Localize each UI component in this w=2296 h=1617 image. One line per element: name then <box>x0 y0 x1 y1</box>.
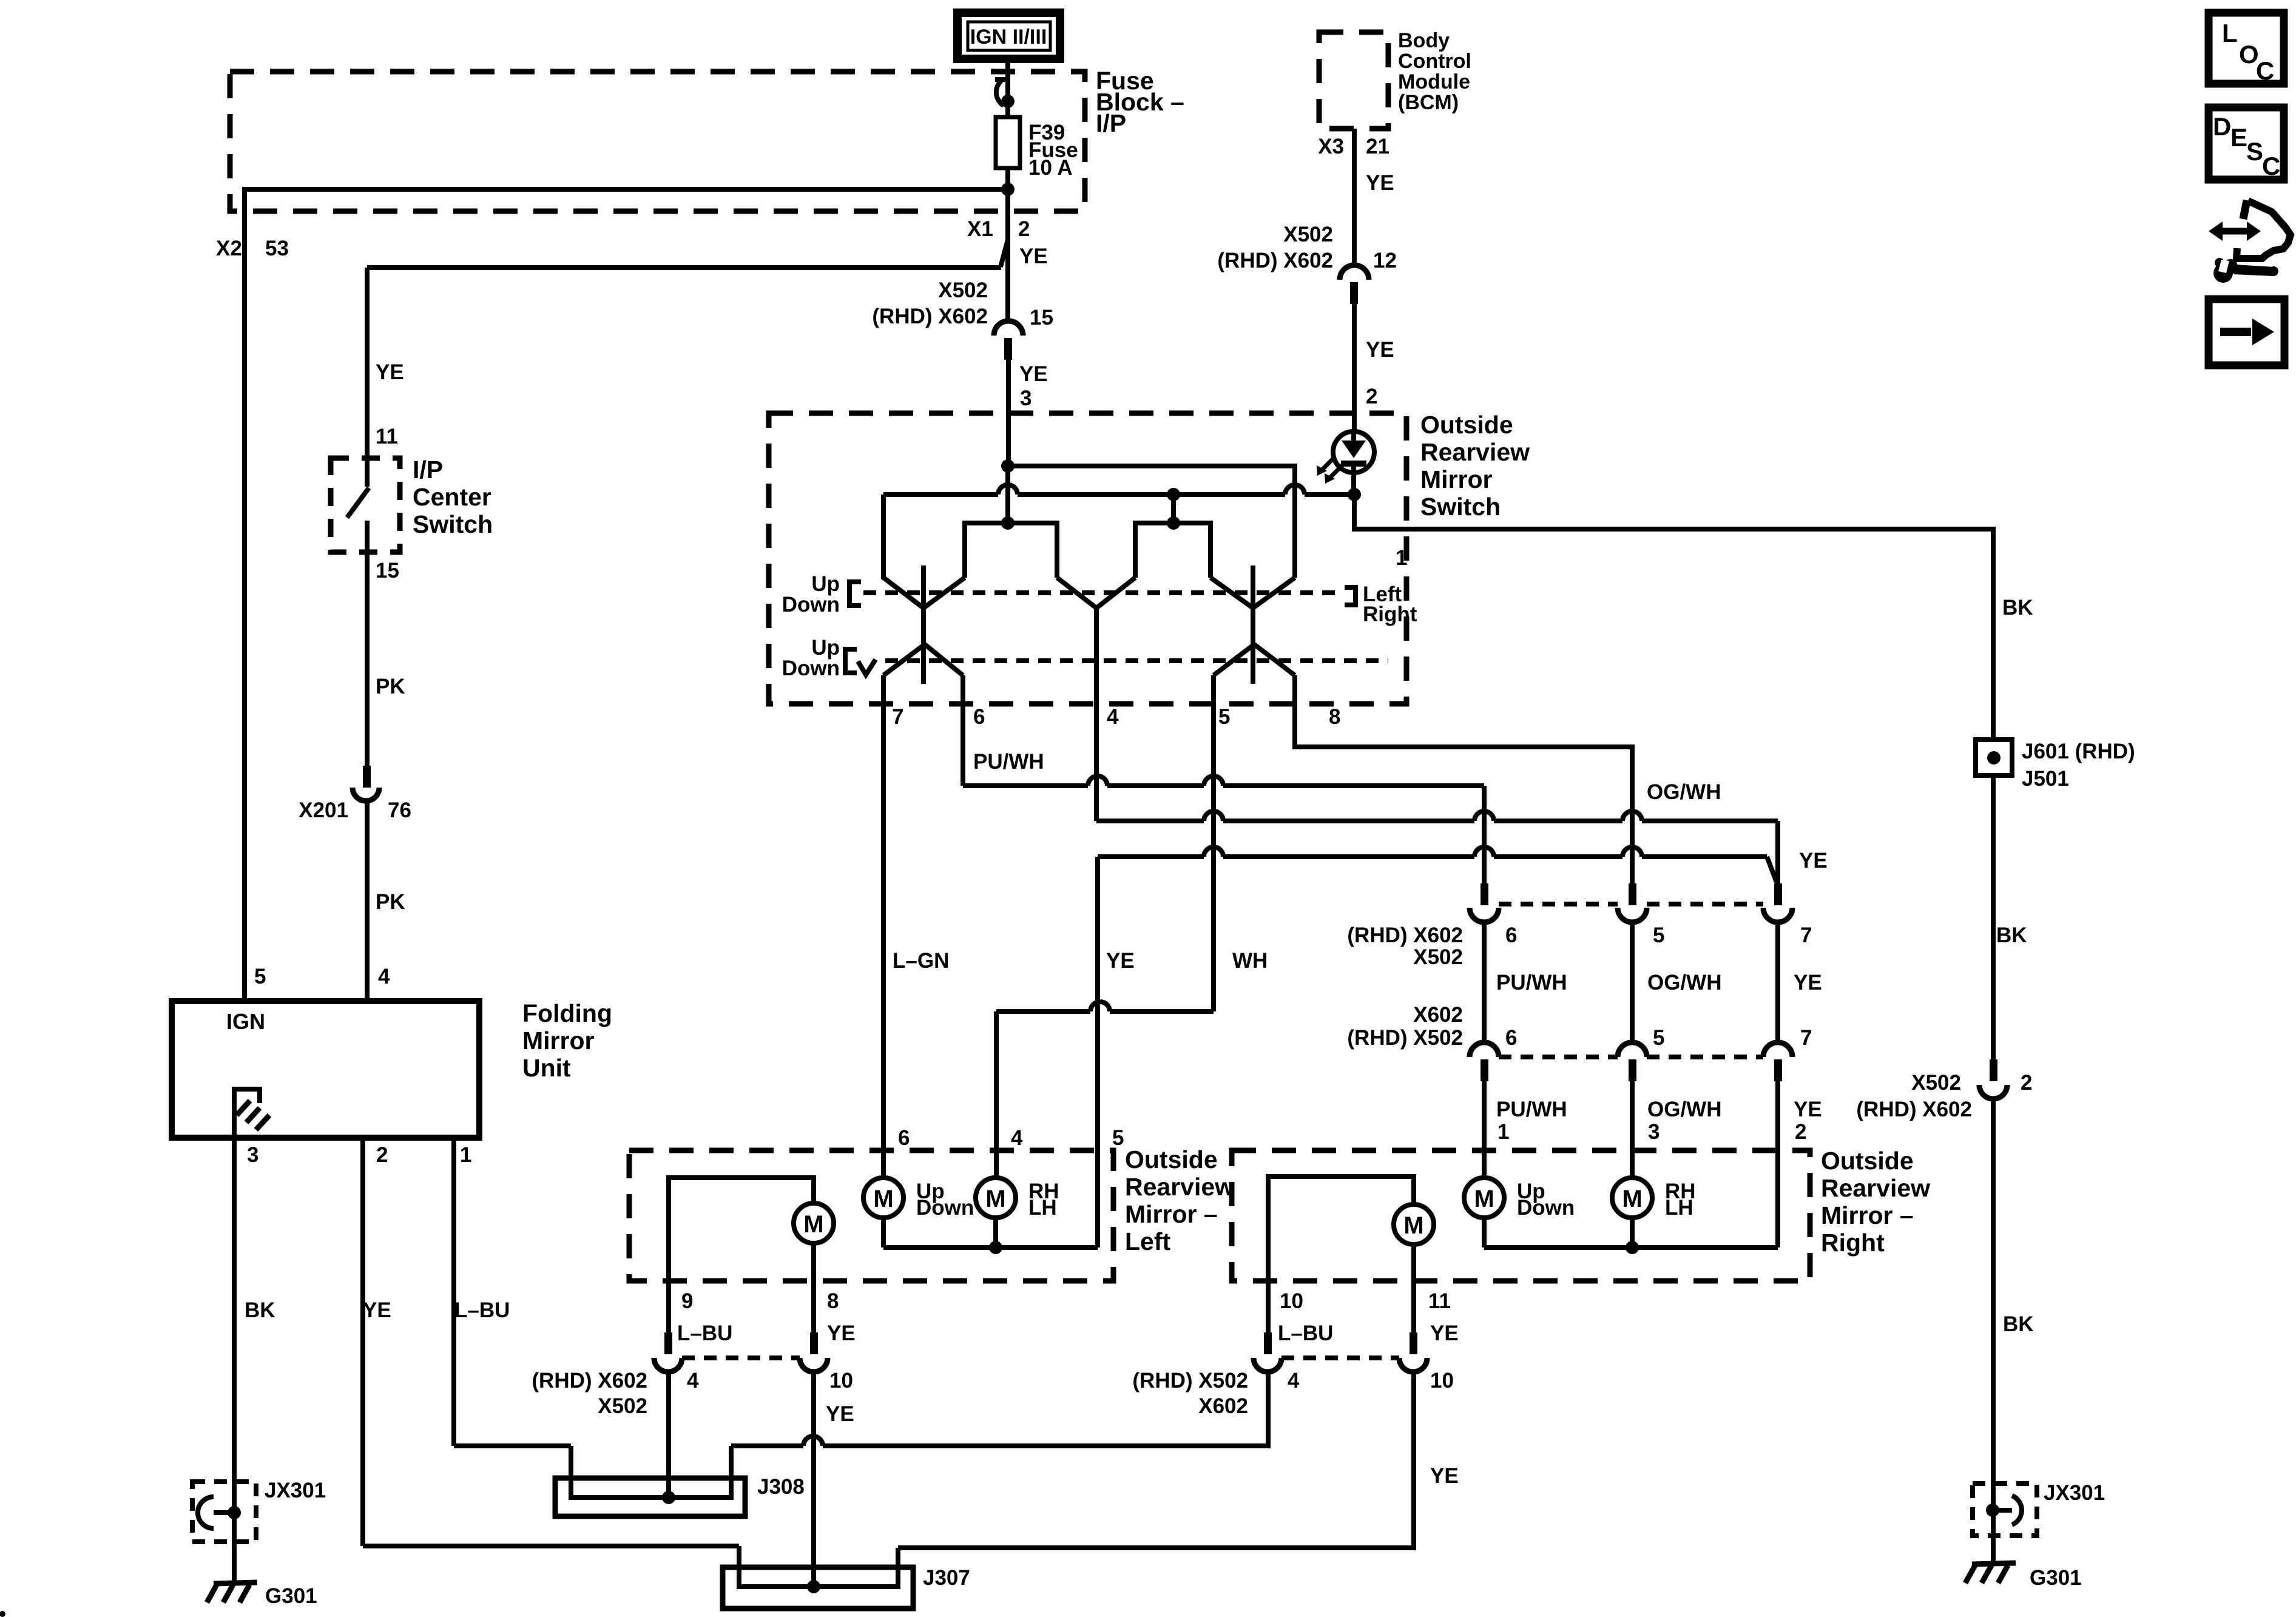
wires into right mirror <box>1482 1081 1487 1178</box>
svg-text:5: 5 <box>1218 705 1230 729</box>
connector JX301 right <box>1973 1484 2037 1536</box>
svg-text:PK: PK <box>376 675 405 698</box>
svg-text:(RHD) X502: (RHD) X502 <box>1347 1026 1463 1050</box>
svg-text:11: 11 <box>1428 1289 1451 1313</box>
svg-text:YE: YE <box>1794 1098 1822 1121</box>
switch contact bar left <box>921 565 926 684</box>
svg-text:PU/WH: PU/WH <box>1496 1098 1567 1121</box>
svg-text:21: 21 <box>1366 135 1389 158</box>
svg-text:X3: X3 <box>1318 135 1344 158</box>
svg-text:Module: Module <box>1398 70 1470 93</box>
left mirror bus <box>881 1218 886 1247</box>
wire YE connector 10 to J307 <box>811 1371 816 1587</box>
svg-text:Folding: Folding <box>522 999 612 1027</box>
wire LED cathode <box>1351 473 1356 495</box>
wire YE to left mirror pin 5 <box>1095 857 1100 1247</box>
svg-text:5: 5 <box>1653 923 1664 947</box>
svg-text:YE: YE <box>363 1298 391 1322</box>
svg-text:8: 8 <box>827 1289 839 1313</box>
wire BK to G301 <box>1991 1098 1996 1564</box>
svg-text:Rearview: Rearview <box>1420 438 1530 466</box>
wire L-BU IGN pin 1 down <box>451 1138 456 1446</box>
svg-text:YE: YE <box>1106 949 1135 973</box>
svg-text:10: 10 <box>1430 1369 1454 1393</box>
wire PU/WH pin 6 down <box>961 675 965 786</box>
fuse F39 10A <box>996 117 1020 168</box>
svg-text:10: 10 <box>829 1369 853 1393</box>
svg-text:Switch: Switch <box>413 510 493 538</box>
svg-text:YE: YE <box>376 360 404 384</box>
node fuse top <box>1001 95 1015 108</box>
wire YE to LED pin 2 <box>1352 304 1357 432</box>
BCM dashed box <box>1319 32 1388 129</box>
wire BK IGN pin 3 down <box>232 1138 237 1585</box>
svg-text:4: 4 <box>1288 1369 1300 1393</box>
svg-text:C: C <box>2256 56 2274 85</box>
svg-text:OG/WH: OG/WH <box>1647 971 1721 994</box>
wire tag to fuse <box>1005 59 1010 117</box>
switch contact bar right <box>1251 565 1255 684</box>
svg-text:5: 5 <box>1112 1126 1124 1150</box>
node rail1 <box>1001 459 1015 473</box>
legend icon arrow box <box>2209 299 2284 365</box>
svg-text:X502: X502 <box>938 279 988 302</box>
svg-text:PK: PK <box>376 890 405 914</box>
svg-text:15: 15 <box>1030 306 1053 329</box>
svg-text:Switch: Switch <box>1420 493 1501 521</box>
wire pin4 YE rail to right connector 7 <box>1096 819 1204 823</box>
motor right fold <box>1394 1204 1434 1244</box>
svg-text:WH: WH <box>1232 949 1268 973</box>
svg-text:L–BU: L–BU <box>677 1322 732 1345</box>
svg-text:5: 5 <box>1653 1026 1664 1050</box>
wire YE IGN pin 2 down <box>360 1138 365 1546</box>
Outside Rearview Mirror Switch dashed box <box>769 413 1406 704</box>
svg-text:7: 7 <box>892 705 903 729</box>
svg-text:Mirror: Mirror <box>1420 465 1493 493</box>
junction block J308 <box>555 1478 745 1516</box>
connector X502/X602 15 <box>994 321 1023 336</box>
wire rail2 left drop to switch V1 <box>883 495 923 608</box>
svg-text:10: 10 <box>1280 1289 1303 1313</box>
svg-text:Mirror –: Mirror – <box>1125 1200 1218 1228</box>
Fuse Block I/P dashed box <box>230 72 1085 211</box>
svg-text:Right: Right <box>1363 603 1417 626</box>
svg-text:9: 9 <box>681 1289 693 1313</box>
svg-text:Outside: Outside <box>1420 411 1513 439</box>
svg-text:1: 1 <box>460 1143 471 1167</box>
svg-text:4: 4 <box>687 1369 699 1393</box>
wire pin 3 inside box <box>1006 413 1011 466</box>
Outside Rearview Mirror Right dashed box <box>1232 1150 1810 1281</box>
svg-text:YE: YE <box>1019 245 1048 268</box>
svg-text:YE: YE <box>1430 1464 1459 1488</box>
svg-text:(RHD) X502: (RHD) X502 <box>1132 1369 1248 1393</box>
svg-text:Mirror: Mirror <box>522 1027 595 1055</box>
wire right connector 10 down and left to J307 rail <box>898 1371 1414 1548</box>
wire PK to IGN pin 4 <box>365 800 370 1001</box>
wire YE to pin 3 <box>1006 360 1011 466</box>
svg-text:Mirror –: Mirror – <box>1821 1201 1914 1229</box>
node fuse output <box>1001 183 1015 196</box>
svg-text:YE: YE <box>1366 338 1394 362</box>
lower contacts right switch <box>1214 644 1254 675</box>
svg-text:4: 4 <box>1011 1126 1023 1150</box>
svg-text:10 A: 10 A <box>1028 156 1073 180</box>
svg-text:6: 6 <box>898 1126 910 1150</box>
svg-text:YE: YE <box>1799 849 1828 873</box>
svg-text:2: 2 <box>1795 1120 1806 1144</box>
svg-text:3: 3 <box>247 1143 258 1167</box>
svg-text:C: C <box>2262 152 2280 180</box>
svg-text:BK: BK <box>2002 596 2033 619</box>
connector X502 4/10 right mirror <box>1264 1332 1272 1354</box>
svg-text:X502: X502 <box>1413 945 1463 969</box>
svg-text:G301: G301 <box>2030 1566 2082 1590</box>
svg-text:M: M <box>1622 1186 1642 1212</box>
svg-text:2: 2 <box>1018 217 1030 241</box>
wire PK pin 15 <box>365 521 370 766</box>
svg-text:IGN II/III: IGN II/III <box>970 25 1047 49</box>
wire YE horizontal <box>367 265 1001 270</box>
switch S1 blade <box>347 488 369 518</box>
wire WH to left mirror pin 4 <box>994 1011 999 1178</box>
svg-text:L–BU: L–BU <box>454 1298 510 1322</box>
svg-text:(RHD) X602: (RHD) X602 <box>1217 249 1333 272</box>
internal ground of folding unit <box>234 1089 260 1138</box>
svg-text:12: 12 <box>1373 249 1397 272</box>
svg-text:M: M <box>803 1211 823 1238</box>
wire right connector 4 down and left to J308 rail <box>823 1371 1268 1446</box>
svg-text:JX301: JX301 <box>2044 1481 2105 1505</box>
svg-text:YE: YE <box>1019 362 1048 386</box>
svg-text:Outside: Outside <box>1821 1147 1914 1175</box>
svg-text:BK: BK <box>245 1298 275 1322</box>
svg-text:X2: X2 <box>216 237 242 260</box>
svg-text:L–BU: L–BU <box>1278 1322 1333 1345</box>
svg-text:YE: YE <box>1794 971 1822 994</box>
svg-text:76: 76 <box>388 798 411 822</box>
svg-text:E: E <box>2230 123 2247 152</box>
legend icon door adjust with wrench <box>2209 200 2291 283</box>
node rail2 LED junction <box>1348 488 1361 501</box>
svg-text:11: 11 <box>376 425 398 448</box>
connector X502/X602 12 <box>1340 265 1369 280</box>
wire center pole pin 4 <box>1094 608 1099 821</box>
motor right rh/lh <box>1612 1178 1652 1218</box>
Folding Mirror Unit box <box>172 1001 479 1138</box>
svg-text:3: 3 <box>1648 1120 1660 1144</box>
wire YE return rail to left mirror pin5 <box>1098 854 1204 859</box>
legend icon LOC box <box>2209 13 2284 85</box>
motor left rh/lh <box>976 1178 1016 1218</box>
connector row X602/X502 lower (door to mirror) <box>1470 1042 1499 1057</box>
svg-text:IGN: IGN <box>226 1009 265 1034</box>
svg-text:J601 (RHD): J601 (RHD) <box>2022 740 2135 763</box>
svg-text:1: 1 <box>1497 1120 1509 1144</box>
svg-text:I/P: I/P <box>413 456 443 484</box>
svg-text:Down: Down <box>1517 1196 1575 1220</box>
motor left fold <box>794 1203 834 1243</box>
svg-text:(RHD) X602: (RHD) X602 <box>1856 1098 1972 1121</box>
svg-text:JX301: JX301 <box>265 1479 326 1502</box>
svg-text:4: 4 <box>1107 705 1119 729</box>
lower contacts left switch <box>883 644 925 675</box>
svg-text:M: M <box>1403 1212 1423 1239</box>
svg-text:6: 6 <box>1505 1026 1517 1050</box>
junction J601/J501 <box>1976 740 2012 775</box>
I/P Center Switch dashed box <box>331 458 400 552</box>
lower mechanical row <box>845 649 857 673</box>
svg-text:X201: X201 <box>299 798 348 822</box>
svg-text:L–GN: L–GN <box>893 949 949 973</box>
legend icon DESC box <box>2209 107 2284 180</box>
svg-text:D: D <box>2213 112 2231 141</box>
svg-text:BK: BK <box>1996 923 2027 947</box>
wire L-GN pin 7 to left mirror pin 6 <box>881 675 886 1178</box>
connector JX301 left <box>192 1482 256 1542</box>
wire fuse to bus <box>1005 168 1010 220</box>
svg-text:(RHD) X602: (RHD) X602 <box>1347 923 1463 947</box>
svg-text:3: 3 <box>1020 387 1032 410</box>
svg-text:4: 4 <box>378 965 390 988</box>
wire rail2 with hops <box>883 492 998 497</box>
svg-text:J308: J308 <box>757 1475 805 1499</box>
svg-text:Outside: Outside <box>1125 1146 1218 1173</box>
svg-text:OG/WH: OG/WH <box>1647 1098 1721 1121</box>
svg-text:1: 1 <box>1396 546 1407 570</box>
svg-text:J307: J307 <box>923 1566 970 1590</box>
node rail2 tulip2 feed <box>1167 488 1180 501</box>
connector X502 2 on BK wire <box>1990 1059 1997 1081</box>
ground G301 left <box>214 1582 257 1584</box>
wires between connector rows <box>1482 922 1487 1042</box>
svg-text:53: 53 <box>265 237 289 260</box>
svg-text:OG/WH: OG/WH <box>1647 780 1721 804</box>
svg-text:X602: X602 <box>1413 1003 1463 1027</box>
svg-text:15: 15 <box>376 559 399 582</box>
svg-text:PU/WH: PU/WH <box>973 750 1044 774</box>
wire YE from BCM X3-21 <box>1352 129 1357 266</box>
svg-text:Down: Down <box>916 1196 974 1220</box>
junction block J307 <box>723 1567 913 1609</box>
power tag IGN II/III <box>957 13 1060 59</box>
svg-text:X502: X502 <box>598 1394 647 1418</box>
wire X2-53 to IGN pin 5 <box>242 187 247 1001</box>
svg-text:PU/WH: PU/WH <box>1496 971 1567 994</box>
svg-text:Down: Down <box>782 593 840 616</box>
LED of switch illumination <box>1333 431 1374 473</box>
svg-text:G301: G301 <box>265 1584 317 1608</box>
svg-text:Rearview: Rearview <box>1821 1174 1930 1202</box>
svg-text:M: M <box>873 1186 893 1212</box>
upper mechanical row <box>849 582 861 606</box>
ground G301 right <box>1972 1563 2016 1564</box>
svg-text:6: 6 <box>973 705 985 729</box>
svg-text:X1: X1 <box>967 217 993 241</box>
wire X1-2 YE <box>1005 211 1010 323</box>
svg-text:7: 7 <box>1800 1026 1812 1050</box>
tulip 2 bus <box>1171 495 1176 523</box>
svg-text:LH: LH <box>1028 1196 1057 1220</box>
svg-text:YE: YE <box>1366 171 1394 195</box>
svg-text:J501: J501 <box>2022 767 2069 791</box>
svg-text:YE: YE <box>826 1402 854 1426</box>
Outside Rearview Mirror Left dashed box <box>629 1150 1113 1281</box>
svg-text:Center: Center <box>413 483 491 511</box>
svg-text:7: 7 <box>1800 923 1812 947</box>
svg-text:X502: X502 <box>1911 1071 1961 1095</box>
svg-text:(BCM): (BCM) <box>1398 91 1459 114</box>
svg-text:YE: YE <box>827 1322 856 1345</box>
wire fuse bus left <box>245 187 1008 192</box>
svg-text:2: 2 <box>2021 1071 2032 1095</box>
svg-text:BK: BK <box>2003 1312 2034 1336</box>
switch S1 contact top <box>365 458 370 487</box>
svg-text:2: 2 <box>1366 385 1377 408</box>
svg-text:LH: LH <box>1665 1196 1693 1220</box>
right mirror bus <box>1482 1218 1487 1247</box>
tulip 1 bus <box>1005 466 1010 523</box>
svg-text:Unit: Unit <box>522 1054 571 1082</box>
motor left up/down <box>863 1178 903 1218</box>
wire L-BU connector 4 to J308 <box>666 1371 671 1499</box>
connector row X502/X602 upper (switch to door) <box>1481 883 1488 905</box>
wire rail1 drop to switch V2 <box>1253 578 1295 608</box>
svg-text:(RHD) X602: (RHD) X602 <box>872 305 988 328</box>
svg-text:M: M <box>1474 1186 1494 1212</box>
wire rail1 <box>1008 466 1295 578</box>
svg-text:8: 8 <box>1329 705 1340 729</box>
svg-text:X502: X502 <box>1283 223 1333 246</box>
svg-text:L: L <box>2222 19 2238 47</box>
svg-text:S: S <box>2246 137 2263 166</box>
svg-text:Rearview: Rearview <box>1125 1173 1234 1201</box>
svg-text:Control: Control <box>1398 50 1471 73</box>
svg-text:2: 2 <box>376 1143 388 1167</box>
wire branch to center switch <box>1001 240 1008 267</box>
wire switch pin1 exit <box>1354 495 1993 529</box>
fuse clip terminal <box>996 79 1004 106</box>
motor right up/down <box>1464 1178 1504 1218</box>
svg-text:Left: Left <box>1125 1227 1171 1255</box>
svg-text:(RHD) X602: (RHD) X602 <box>532 1369 647 1393</box>
wire pin8 OG/WH <box>1295 675 1632 885</box>
svg-text:Body: Body <box>1398 29 1450 52</box>
wire BK to X502-2 <box>1991 775 1996 1059</box>
svg-text:Right: Right <box>1821 1229 1885 1257</box>
svg-text:YE: YE <box>1430 1322 1459 1345</box>
svg-text:6: 6 <box>1505 923 1517 947</box>
page mark <box>0 1611 5 1617</box>
svg-text:5: 5 <box>254 965 266 988</box>
svg-text:Down: Down <box>782 657 840 680</box>
svg-text:I/P: I/P <box>1096 109 1126 137</box>
svg-text:X602: X602 <box>1198 1394 1248 1418</box>
connector X502 4/10 left mirror <box>664 1332 672 1354</box>
wire YE pin 11 <box>365 268 370 460</box>
svg-text:M: M <box>985 1186 1005 1212</box>
connector X201 76 <box>363 766 371 788</box>
wire WH pin 5 down <box>1211 675 1216 1011</box>
wire BK right side down <box>1991 527 1996 740</box>
